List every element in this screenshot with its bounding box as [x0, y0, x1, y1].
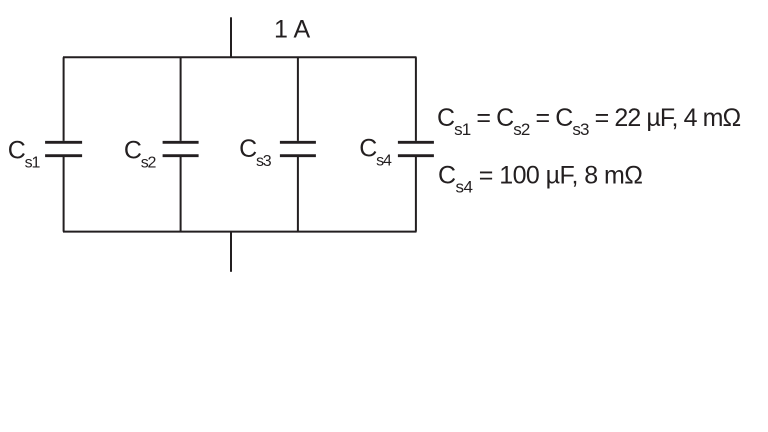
svg-text:Cs1 = Cs2 = Cs3 = 22 µF, 4 mΩ: Cs1 = Cs2 = Cs3 = 22 µF, 4 mΩ: [437, 104, 741, 139]
svg-text:Cs2: Cs2: [124, 137, 157, 172]
capacitor Cs4 plates: [398, 142, 434, 155]
wire: Cs1 branch lower: [63, 157, 65, 232]
wire: bottom rail node: [63, 231, 417, 233]
wire: Cs1 branch upper: [63, 57, 65, 141]
wire: bottom lead (return stub): [230, 232, 232, 272]
svg-text:Cs1: Cs1: [8, 137, 41, 172]
svg-text:Cs4 = 100 µF, 8 mΩ: Cs4 = 100 µF, 8 mΩ: [438, 161, 642, 196]
wire: Cs2 branch upper: [180, 57, 182, 141]
wire: top rail node: [63, 56, 417, 58]
wire: Cs2 branch lower: [180, 157, 182, 232]
capacitor Cs2 plates: [163, 142, 199, 155]
wire: 1 A current lead (top stub): [230, 17, 232, 57]
svg-text:Cs3: Cs3: [239, 135, 272, 170]
capacitor Cs1 plates: [45, 142, 82, 155]
wire: Cs4 branch lower: [415, 157, 417, 232]
capacitor Cs3 plates: [280, 142, 316, 155]
wire: Cs3 branch lower: [297, 157, 299, 232]
wire: Cs3 branch upper: [297, 57, 299, 141]
svg-text:Cs4: Cs4: [359, 134, 392, 169]
svg-text:1 A: 1 A: [274, 16, 310, 44]
wire: Cs4 branch upper: [415, 57, 417, 141]
